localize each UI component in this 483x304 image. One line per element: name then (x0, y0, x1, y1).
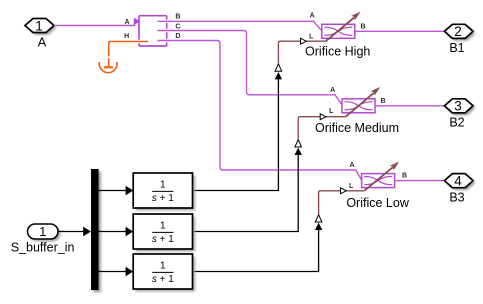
wire C (manifold to Orifice Medium) (158, 31, 343, 105)
svg-text:B: B (360, 23, 365, 30)
svg-text:A: A (124, 19, 129, 26)
svg-text:C: C (175, 24, 180, 31)
wire demux to TF3 (99, 271, 126, 273)
svg-text:A: A (38, 35, 47, 50)
svg-text:B: B (380, 98, 385, 105)
junction arrows High (275, 72, 282, 79)
wire TF1 output to High L junction (193, 79, 279, 190)
Orifice Low block (346, 162, 409, 211)
inport S_buffer_in shadow (30, 226, 61, 241)
svg-text:A: A (330, 87, 335, 94)
port 2 (B1) shadow (447, 27, 476, 41)
svg-text:4: 4 (454, 174, 462, 189)
wire Medium B to port 3 (375, 105, 444, 107)
wire D (manifold to Orifice Low) (158, 41, 362, 181)
svg-text:1: 1 (160, 261, 166, 272)
PS wire to High L (278, 41, 325, 64)
svg-text:L: L (309, 33, 314, 40)
svg-text:Orifice Medium: Orifice Medium (315, 121, 399, 135)
port 4 (B3) shadow (447, 176, 476, 190)
wire demux to TF2 (99, 231, 126, 233)
svg-text:s + 1: s + 1 (152, 193, 174, 204)
svg-text:2: 2 (454, 24, 462, 39)
svg-text:1: 1 (39, 224, 46, 239)
svg-text:L: L (349, 183, 354, 190)
svg-text:A: A (349, 162, 354, 169)
svg-text:D: D (175, 33, 180, 40)
svg-text:1: 1 (160, 180, 166, 191)
svg-text:B3: B3 (449, 190, 464, 204)
wire TF3 output to Low L junction (193, 230, 319, 272)
port 2 hexagon (444, 24, 473, 38)
svg-text:A: A (310, 13, 315, 20)
wire High B to port 2 (355, 30, 445, 32)
open arrowhead Low L (341, 188, 347, 194)
svg-text:B: B (402, 173, 407, 180)
open arrowhead Medium L (320, 114, 326, 120)
svg-text:B2: B2 (449, 116, 464, 130)
svg-text:s + 1: s + 1 (152, 274, 174, 285)
port 4 hexagon (444, 174, 473, 188)
wire Low B to port 4 (395, 180, 445, 182)
Orifice High block (305, 12, 370, 59)
svg-text:3: 3 (454, 99, 462, 114)
PS wire to Medium L (298, 117, 346, 140)
transfer function 1 (133, 173, 195, 211)
svg-text:H: H (124, 33, 129, 40)
wire A to manifold (54, 21, 135, 25)
wire B (manifold to Orifice High) (158, 21, 322, 31)
svg-text:s + 1: s + 1 (152, 234, 174, 245)
open arrowhead High L (301, 38, 307, 44)
wire TF2 output to Medium L junction (193, 155, 299, 232)
Orifice Medium block (315, 87, 399, 135)
wire H (orange) (109, 42, 148, 57)
PS wire to Low L (319, 191, 365, 215)
port 1 (A) shadow (27, 21, 56, 35)
svg-text:Orifice High: Orifice High (305, 45, 370, 59)
transfer function 3 (133, 254, 195, 292)
svg-text:B1: B1 (449, 41, 464, 55)
svg-text:1: 1 (35, 18, 43, 33)
port 3 (B2) shadow (447, 101, 476, 115)
demux bar (91, 169, 99, 290)
svg-text:L: L (329, 108, 334, 115)
transfer function 2 (133, 214, 195, 252)
wire demux to TF1 (99, 190, 126, 192)
junction arrows Medium (295, 148, 302, 155)
port arrow at manifold A (134, 18, 139, 24)
svg-text:B: B (175, 13, 180, 20)
svg-text:S_buffer_in: S_buffer_in (11, 240, 75, 254)
svg-text:1: 1 (160, 221, 166, 232)
port 1 (A) hexagon (25, 19, 54, 33)
demux shadow (93, 171, 101, 292)
manifold subsystem outline (139, 16, 167, 46)
inport S_buffer_in oval (28, 224, 59, 239)
svg-text:Orifice Low: Orifice Low (346, 196, 409, 210)
port 3 hexagon (444, 99, 473, 113)
wire inport to demux (58, 231, 84, 233)
junction arrows Low (315, 223, 322, 230)
reservoir (hydraulic reference) (99, 58, 117, 72)
